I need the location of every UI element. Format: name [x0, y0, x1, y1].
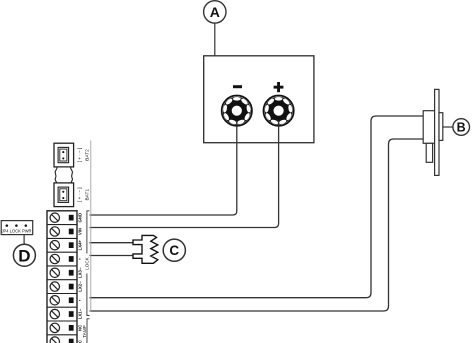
- svg-text:JP4 LOCK PWR: JP4 LOCK PWR: [1, 228, 31, 233]
- svg-text:D: D: [18, 247, 30, 266]
- svg-text:A: A: [210, 4, 220, 20]
- svg-text:LX3−: LX3−: [78, 267, 83, 278]
- svg-text:[ + · − ]: [ + · − ]: [77, 187, 82, 202]
- svg-text:B: B: [457, 121, 466, 135]
- svg-text:BAT2: BAT2: [84, 149, 90, 161]
- svg-text:GND: GND: [78, 213, 83, 223]
- svg-text:C: C: [169, 243, 179, 258]
- svg-text:[ + · − ]: [ + · − ]: [77, 148, 82, 163]
- svg-text:•: •: [78, 299, 83, 301]
- svg-text:BAT1: BAT1: [84, 189, 90, 201]
- svg-text:TAMP: TAMP: [82, 325, 87, 337]
- svg-text:VIN: VIN: [78, 228, 83, 235]
- svg-text:•: •: [78, 258, 83, 260]
- svg-text:LX4+: LX4+: [78, 240, 83, 251]
- svg-text:LX2−: LX2−: [78, 281, 83, 292]
- svg-text:LX1−: LX1−: [78, 308, 83, 319]
- svg-text:LOCK: LOCK: [85, 256, 90, 269]
